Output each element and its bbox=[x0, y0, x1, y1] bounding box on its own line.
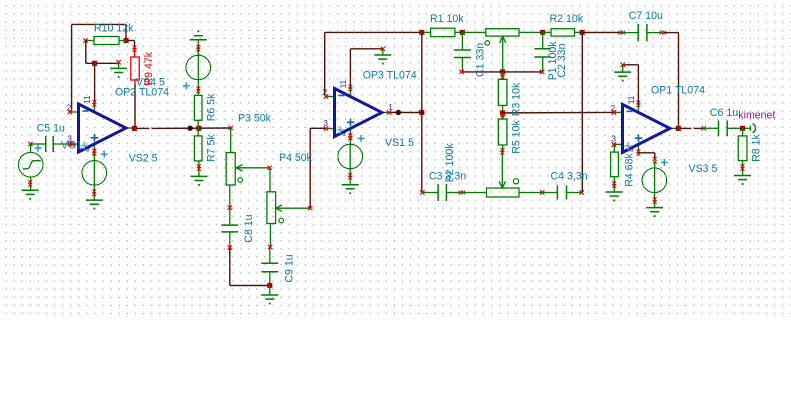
svg-text:4: 4 bbox=[629, 148, 636, 152]
svg-text:VS3 5: VS3 5 bbox=[689, 163, 718, 175]
svg-text:R8 1k: R8 1k bbox=[750, 134, 762, 162]
svg-text:R9 47k: R9 47k bbox=[143, 51, 155, 85]
svg-text:R3 10k: R3 10k bbox=[510, 82, 522, 116]
svg-text:C1 33n: C1 33n bbox=[475, 43, 487, 77]
svg-text:C2 33n: C2 33n bbox=[556, 43, 568, 77]
svg-text:4: 4 bbox=[85, 148, 92, 152]
svg-text:OP3 TL074: OP3 TL074 bbox=[363, 69, 417, 81]
svg-text:VS1 5: VS1 5 bbox=[385, 137, 414, 149]
svg-text:OP1 TL074: OP1 TL074 bbox=[651, 85, 705, 97]
svg-text:C9 1u: C9 1u bbox=[283, 254, 295, 282]
svg-text:11: 11 bbox=[627, 95, 636, 104]
svg-text:R10 12k: R10 12k bbox=[94, 22, 134, 34]
svg-text:11: 11 bbox=[339, 79, 348, 88]
svg-text:P4 50k: P4 50k bbox=[279, 152, 313, 164]
svg-text:C6 1u: C6 1u bbox=[710, 107, 738, 119]
svg-text:4: 4 bbox=[341, 132, 348, 136]
svg-text:P2 100k: P2 100k bbox=[444, 143, 456, 183]
svg-text:R5 10k: R5 10k bbox=[510, 120, 522, 154]
svg-text:R7 5k: R7 5k bbox=[205, 134, 217, 162]
svg-text:C5 1u: C5 1u bbox=[37, 122, 65, 134]
svg-text:R6 5k: R6 5k bbox=[205, 93, 217, 121]
svg-text:VG1: VG1 bbox=[61, 140, 82, 152]
svg-text:R2 10k: R2 10k bbox=[550, 13, 584, 25]
svg-text:P3 50k: P3 50k bbox=[238, 112, 272, 124]
svg-text:C4 3,3n: C4 3,3n bbox=[551, 170, 588, 182]
svg-text:C8 1u: C8 1u bbox=[243, 214, 255, 242]
svg-text:kimenet: kimenet bbox=[738, 110, 775, 122]
svg-text:VS2 5: VS2 5 bbox=[129, 153, 158, 165]
svg-text:R4 68k: R4 68k bbox=[623, 153, 635, 187]
svg-text:1: 1 bbox=[388, 102, 393, 112]
svg-text:11: 11 bbox=[83, 95, 92, 104]
svg-text:R1 10k: R1 10k bbox=[430, 13, 464, 25]
svg-text:C7 10u: C7 10u bbox=[629, 10, 663, 22]
